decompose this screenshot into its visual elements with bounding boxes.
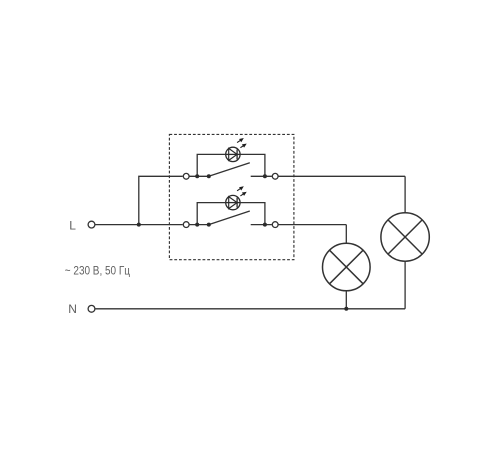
svg-text:L: L	[69, 218, 76, 232]
svg-text:~ 230 В, 50 Гц: ~ 230 В, 50 Гц	[65, 266, 131, 278]
svg-text:N: N	[68, 302, 77, 316]
